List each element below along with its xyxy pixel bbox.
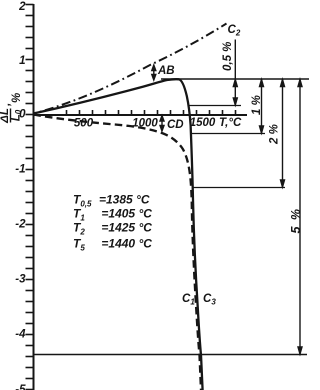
svg-text:1500: 1500 bbox=[190, 117, 216, 129]
svg-text:-5: -5 bbox=[15, 384, 26, 390]
svg-text:=1440 °C: =1440 °C bbox=[99, 237, 152, 251]
svg-text:=1405 °C: =1405 °C bbox=[99, 207, 152, 221]
svg-text:2: 2 bbox=[18, 1, 26, 13]
svg-text:%: % bbox=[11, 93, 23, 103]
svg-text:0,5 %: 0,5 % bbox=[222, 42, 234, 71]
svg-text:2 %: 2 % bbox=[269, 124, 281, 145]
svg-text:-3: -3 bbox=[15, 274, 26, 286]
svg-text:ΔL: ΔL bbox=[0, 108, 11, 124]
svg-text:-2: -2 bbox=[15, 219, 26, 231]
svg-text:500: 500 bbox=[74, 118, 94, 130]
svg-text:=1425 °C: =1425 °C bbox=[99, 221, 152, 235]
svg-text:5 %: 5 % bbox=[289, 207, 303, 233]
svg-text:1 %: 1 % bbox=[251, 95, 263, 115]
svg-text:T,°C: T,°C bbox=[219, 117, 242, 129]
svg-text:=1385 °C: =1385 °C bbox=[99, 193, 150, 207]
svg-text:-4: -4 bbox=[15, 329, 26, 341]
svg-text:AB: AB bbox=[157, 65, 175, 77]
svg-text:-1: -1 bbox=[15, 164, 25, 176]
svg-text:,: , bbox=[1, 103, 13, 107]
svg-text:CD: CD bbox=[167, 119, 184, 131]
svg-text:1: 1 bbox=[19, 55, 25, 67]
svg-text:1000: 1000 bbox=[132, 118, 158, 130]
